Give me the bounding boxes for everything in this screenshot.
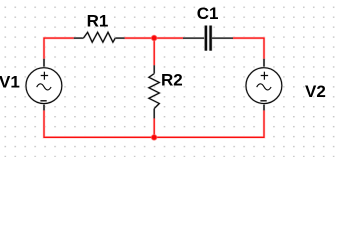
wire: top rail left segment + left drop — [44, 38, 75, 60]
wire: bottom rail right + right vertical lower — [154, 110, 264, 138]
resistor R2 — [149, 65, 159, 118]
junction node at R2 bottom — [151, 134, 158, 141]
wire: top rail between R1 and C1 — [123, 37, 184, 40]
AC source V2 — [246, 59, 282, 111]
svg-text:R2: R2 — [161, 71, 183, 90]
wire: middle branch lower — [153, 118, 156, 138]
wire: top rail right segment + right drop — [232, 38, 264, 60]
svg-text:C1: C1 — [197, 4, 219, 23]
junction node at R2 top — [151, 34, 158, 41]
svg-text:V2: V2 — [305, 82, 326, 101]
resistor R1 — [74, 32, 125, 42]
svg-text:R1: R1 — [87, 11, 109, 30]
wire: left vertical lower + bottom rail left — [44, 110, 154, 138]
capacitor C1 — [183, 26, 233, 51]
svg-text:V1: V1 — [0, 73, 20, 92]
AC source V1 — [26, 59, 62, 111]
wire: middle branch upper — [153, 38, 156, 66]
